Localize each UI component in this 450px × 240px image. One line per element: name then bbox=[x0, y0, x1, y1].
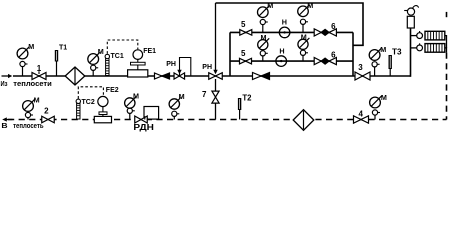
manometer M before pump 1 bbox=[258, 1, 274, 32]
thermometer T2 bbox=[239, 110, 241, 120]
wire radiator branch 2 bbox=[411, 47, 417, 49]
manometer M after strainer bbox=[88, 47, 104, 76]
svg-text:РН: РН bbox=[202, 64, 212, 71]
svg-text:3: 3 bbox=[358, 63, 363, 72]
svg-text:РДН: РДН bbox=[133, 123, 154, 132]
svg-text:5: 5 bbox=[241, 20, 246, 29]
svg-text:Н: Н bbox=[279, 47, 284, 56]
svg-text:M: M bbox=[98, 47, 104, 56]
control link TC2 to FE2 (dashed) bbox=[78, 87, 103, 99]
svg-text:РН: РН bbox=[166, 61, 176, 68]
manometer M after pump 2 bbox=[298, 33, 310, 62]
temperature sensor TC2 bbox=[77, 103, 80, 119]
svg-text:M: M bbox=[380, 45, 386, 54]
valve 2 bbox=[42, 116, 55, 123]
svg-text:5: 5 bbox=[241, 49, 246, 58]
pressure regulator РДН valve bbox=[135, 116, 148, 123]
check valve after FE1 bbox=[155, 73, 162, 79]
svg-text:2: 2 bbox=[44, 106, 49, 115]
pump H2 bbox=[276, 56, 287, 67]
temperature sensor TC1 bbox=[106, 59, 109, 76]
radiator (upper) bbox=[425, 31, 445, 40]
valve 7 (vertical) bbox=[212, 91, 219, 103]
svg-text:6: 6 bbox=[331, 51, 336, 60]
svg-text:M: M bbox=[381, 93, 387, 102]
bypass pipe around pumps bbox=[216, 3, 364, 45]
manometer M before pump 2 bbox=[258, 33, 270, 61]
svg-text:T3: T3 bbox=[392, 47, 402, 56]
PH2 impulse vertical line bbox=[215, 3, 217, 73]
svg-text:6: 6 bbox=[331, 22, 336, 31]
strainer on return bbox=[293, 110, 314, 131]
flow arrow into system bbox=[2, 75, 9, 77]
valve 1 bbox=[32, 73, 46, 80]
check valve 6 (branch 2) bbox=[314, 58, 321, 65]
svg-text:M: M bbox=[307, 1, 313, 10]
PH1 impulse line and actuator arrow bbox=[180, 58, 191, 77]
manometer M after РДН (left side) bbox=[125, 92, 139, 120]
valve 3 bbox=[355, 72, 370, 80]
wire return main pipe (dashed) bbox=[8, 119, 447, 121]
manometer M on return outlet bbox=[23, 95, 40, 119]
wire radiator branch 1 bbox=[411, 35, 417, 37]
pressure regulator PH1 valve bbox=[174, 73, 185, 79]
svg-text:M: M bbox=[261, 33, 267, 42]
manometer M after pump 1 bbox=[298, 1, 314, 33]
svg-text:Н: Н bbox=[282, 18, 287, 27]
wire return riser continuation stub bbox=[446, 12, 448, 17]
flow meter FE2 with sensor head bbox=[98, 96, 108, 106]
wire pump group outlet vertical bbox=[352, 32, 354, 76]
pump H1 bbox=[279, 27, 290, 38]
svg-text:M: M bbox=[28, 42, 34, 51]
wire pump branch 1 bbox=[230, 31, 353, 33]
svg-text:FE2: FE2 bbox=[106, 87, 119, 94]
manometer M after valve 3 bbox=[369, 45, 386, 76]
strainer (dirt trap) on supply bbox=[65, 67, 85, 85]
svg-text:T1: T1 bbox=[59, 44, 67, 51]
РДН actuator box bbox=[144, 107, 159, 120]
svg-text:ТС1: ТС1 bbox=[111, 53, 124, 60]
svg-text:Из: Из bbox=[1, 79, 8, 88]
svg-text:теплосети: теплосети bbox=[13, 79, 52, 88]
svg-text:В: В bbox=[1, 121, 7, 130]
wire pump branch 2 bbox=[230, 60, 353, 62]
svg-text:7: 7 bbox=[202, 90, 207, 99]
wire drain line below PH2 bbox=[215, 79, 217, 92]
thermometer T3 bbox=[389, 69, 391, 76]
radiator valve (lower) bbox=[417, 45, 423, 51]
radiator (lower) bbox=[425, 44, 445, 53]
radiator valve (upper) bbox=[417, 33, 423, 39]
wire supply riser to heating system bbox=[410, 28, 412, 77]
svg-text:M: M bbox=[34, 95, 40, 104]
wire radiator 2 outlet bbox=[445, 48, 447, 53]
manometer M on supply inlet bbox=[17, 42, 34, 76]
svg-text:T2: T2 bbox=[242, 94, 252, 103]
svg-text:M: M bbox=[267, 1, 273, 10]
wire return riser from radiators (dashed) bbox=[446, 53, 448, 120]
svg-text:теплосеть: теплосеть bbox=[13, 121, 44, 130]
svg-text:M: M bbox=[179, 92, 185, 101]
control link TC1 to FE1 (dashed) bbox=[107, 40, 138, 54]
check valve on supply under pumps bbox=[253, 73, 262, 80]
wire pump group inlet vertical bbox=[229, 32, 231, 76]
valve 4 bbox=[354, 116, 369, 123]
svg-text:4: 4 bbox=[358, 110, 363, 119]
wire supply main pipe bbox=[13, 75, 411, 77]
air vent on riser top bbox=[407, 16, 414, 28]
valve 5 (branch 2) bbox=[240, 58, 252, 64]
flow arrow out of system bbox=[7, 119, 13, 121]
wire radiator 1 outlet bbox=[445, 36, 447, 48]
svg-text:M: M bbox=[301, 33, 307, 42]
pressure regulator PH2 valve bbox=[209, 73, 223, 80]
manometer M on return before network bbox=[370, 93, 387, 120]
svg-text:FE1: FE1 bbox=[143, 48, 156, 55]
wire drain to return bbox=[215, 103, 217, 120]
thermometer T1 bbox=[56, 62, 58, 77]
valve 5 (branch 1) bbox=[240, 30, 252, 36]
svg-text:M: M bbox=[133, 92, 139, 101]
svg-text:ТС2: ТС2 bbox=[82, 99, 95, 106]
manometer M before РДН (right side) bbox=[169, 92, 185, 120]
flow meter FE1 with sensor head bbox=[133, 50, 143, 60]
svg-text:1: 1 bbox=[37, 64, 42, 73]
check valve 6 (branch 1) bbox=[314, 29, 321, 36]
